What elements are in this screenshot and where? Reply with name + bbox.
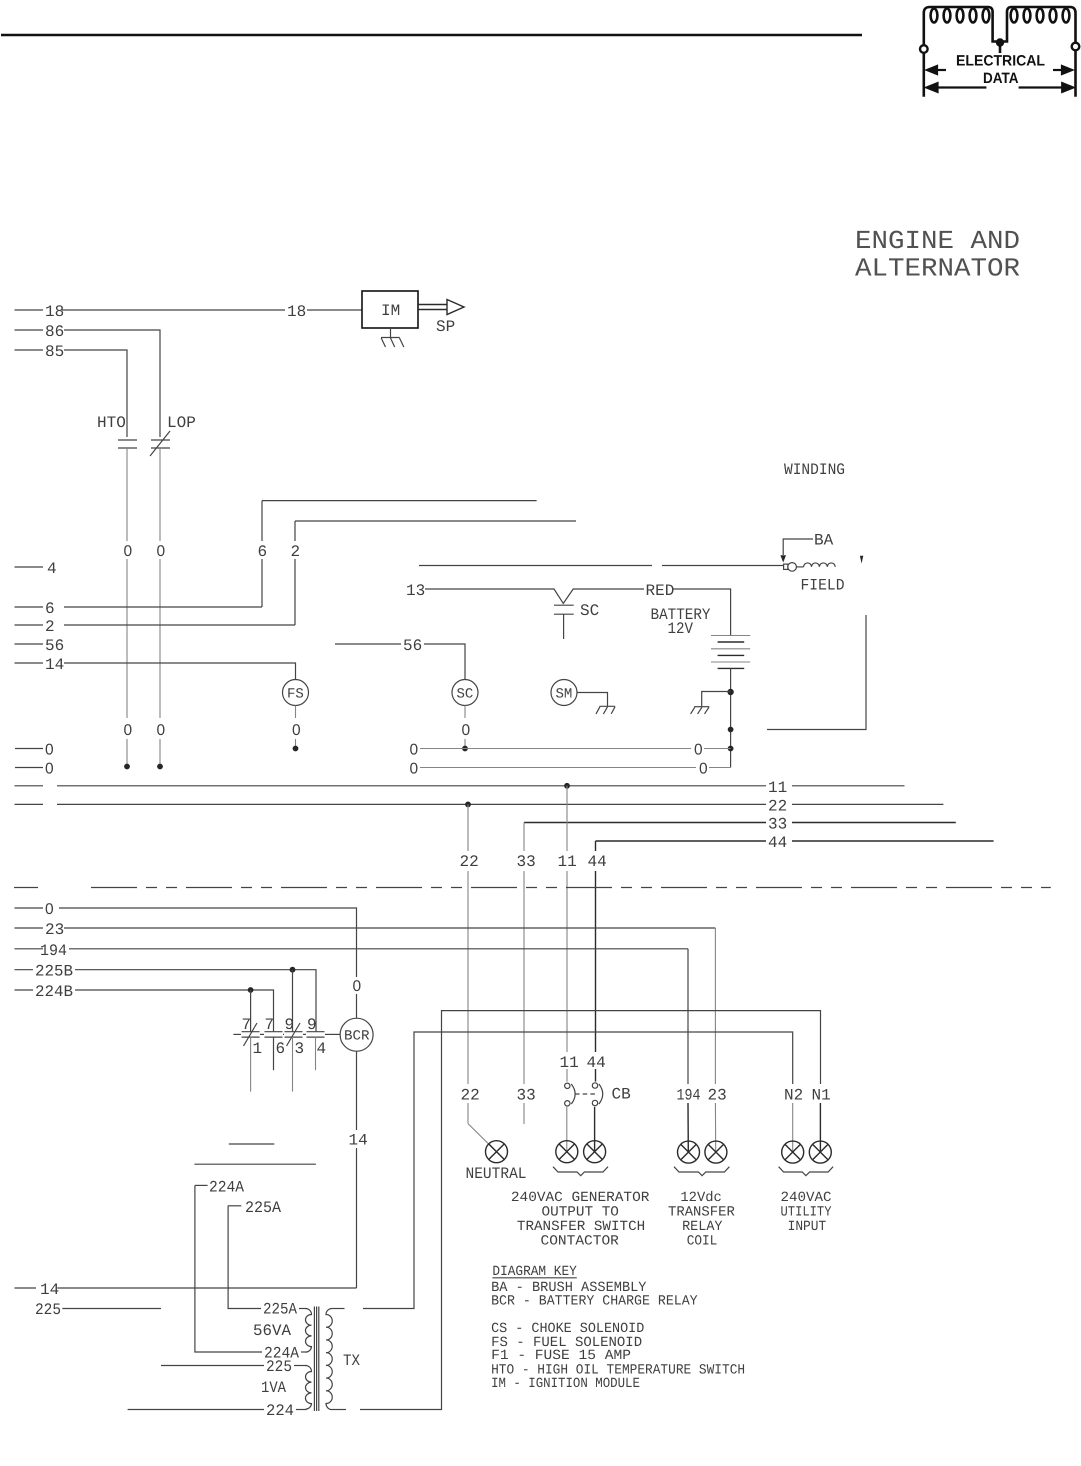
- svg-text:3: 3: [295, 1040, 305, 1058]
- icon arrows: [927, 66, 1074, 92]
- svg-text:1: 1: [253, 1040, 263, 1058]
- field return wire: [767, 615, 866, 730]
- rail 22: [15, 797, 944, 815]
- svg-text:RED: RED: [646, 582, 675, 600]
- svg-text:BA: BA: [814, 532, 834, 550]
- TX secondary upper wire to N2: [332, 1032, 793, 1309]
- icon center tap dot: [996, 38, 1004, 46]
- svg-text:WINDING: WINDING: [784, 461, 845, 479]
- winding tick arrow: [860, 556, 863, 564]
- rail 0 lower: [15, 761, 731, 778]
- svg-text:23: 23: [45, 921, 64, 939]
- FS wire to 0: [292, 706, 301, 752]
- svg-text:INPUT: INPUT: [788, 1219, 827, 1235]
- starter motor SM: [551, 680, 577, 706]
- svg-text:22: 22: [461, 1087, 480, 1105]
- svg-text:225: 225: [266, 1358, 292, 1376]
- lamp 194: [678, 1141, 700, 1163]
- svg-text:0: 0: [124, 722, 133, 739]
- svg-text:56: 56: [403, 637, 422, 655]
- SM ground: [577, 693, 615, 714]
- svg-text:22: 22: [460, 853, 479, 871]
- lamp 23: [705, 1141, 727, 1163]
- svg-text:N2: N2: [784, 1087, 803, 1105]
- svg-text:224B: 224B: [35, 983, 73, 1001]
- wire 44 down: [594, 841, 597, 1152]
- IM output arrow SP: [418, 300, 464, 337]
- svg-text:86: 86: [45, 323, 64, 341]
- svg-text:11: 11: [768, 779, 787, 797]
- svg-text:224A: 224A: [209, 1178, 244, 1196]
- caption utility input: [781, 1190, 833, 1235]
- svg-text:224: 224: [266, 1402, 294, 1420]
- svg-text:ALTERNATOR: ALTERNATOR: [855, 254, 1020, 284]
- svg-text:N1: N1: [812, 1087, 831, 1105]
- wire 225 stub: [35, 1301, 161, 1319]
- svg-text:CONTACTOR: CONTACTOR: [541, 1234, 620, 1250]
- brace utility input: [779, 1167, 834, 1176]
- svg-text:0: 0: [699, 761, 708, 778]
- svg-text:4: 4: [317, 1040, 327, 1058]
- wire 4: [15, 560, 57, 578]
- svg-text:IM - IGNITION MODULE: IM - IGNITION MODULE: [491, 1376, 640, 1392]
- wire 224B: [15, 983, 274, 1032]
- circuit breaker CB: [565, 1083, 631, 1106]
- IM ground: [381, 328, 404, 347]
- wire 13 to choke solenoid: [406, 582, 731, 636]
- wire 6: [15, 501, 537, 618]
- svg-text:ENGINE AND: ENGINE AND: [855, 226, 1020, 256]
- svg-text:0: 0: [353, 978, 362, 995]
- svg-text:COIL: COIL: [687, 1234, 718, 1250]
- svg-text:DATA: DATA: [983, 70, 1019, 87]
- svg-text:33: 33: [517, 853, 536, 871]
- svg-text:14: 14: [40, 1281, 59, 1299]
- battery negative wire: [727, 668, 733, 767]
- svg-text:CB: CB: [612, 1086, 631, 1104]
- wire 194: [15, 942, 689, 1152]
- wire 225 to TX: [161, 1358, 307, 1376]
- svg-text:12V: 12V: [668, 620, 694, 638]
- svg-text:18: 18: [45, 303, 64, 321]
- BCR contact 9-4: [307, 1016, 327, 1070]
- svg-text:33: 33: [768, 816, 787, 834]
- svg-text:194: 194: [40, 942, 67, 960]
- svg-text:33: 33: [517, 1087, 536, 1105]
- wire 11 down: [566, 786, 568, 1152]
- svg-text:LOP: LOP: [167, 414, 196, 432]
- svg-text:225A: 225A: [245, 1199, 281, 1217]
- svg-text:4: 4: [47, 560, 57, 578]
- svg-text:SC: SC: [457, 687, 474, 703]
- svg-text:0: 0: [45, 761, 54, 778]
- svg-text:14: 14: [349, 1132, 368, 1150]
- brush assembly BA pointer: [780, 532, 833, 563]
- svg-text:0: 0: [462, 722, 471, 739]
- lamp N2: [782, 1141, 804, 1163]
- svg-text:UTILITY: UTILITY: [781, 1204, 833, 1220]
- caption transfer relay coil: [668, 1190, 735, 1250]
- svg-text:0: 0: [124, 543, 133, 560]
- starter contactor SC: [452, 680, 478, 706]
- svg-text:IM: IM: [381, 302, 400, 320]
- svg-text:44: 44: [587, 1054, 606, 1072]
- break mark segments: [194, 1144, 316, 1164]
- svg-text:0: 0: [45, 742, 54, 759]
- transformer TX core: [314, 1307, 318, 1412]
- wire 2: [15, 521, 577, 636]
- svg-text:0: 0: [410, 742, 419, 759]
- HTO wire down: [126, 448, 128, 765]
- rail 0 upper: [15, 742, 731, 759]
- svg-text:NEUTRAL: NEUTRAL: [466, 1165, 527, 1183]
- battery ground: [691, 692, 731, 714]
- svg-text:44: 44: [768, 834, 787, 852]
- svg-text:44: 44: [588, 853, 607, 871]
- svg-text:SC: SC: [580, 602, 599, 620]
- brace generator output: [553, 1167, 608, 1176]
- transformer TX primary lower: [305, 1366, 311, 1410]
- svg-text:TX: TX: [343, 1352, 360, 1370]
- electrical data icon: [924, 7, 1076, 97]
- wire 14: [15, 656, 296, 680]
- wire to winding: [419, 565, 784, 567]
- choke solenoid SC symbol: [554, 605, 574, 639]
- switch HTO: [97, 414, 137, 448]
- wire 56: [15, 637, 466, 680]
- battery charge relay BCR: [340, 1018, 373, 1051]
- transformer TX primary upper: [305, 1309, 311, 1353]
- svg-text:2: 2: [291, 543, 301, 561]
- svg-text:BCR: BCR: [344, 1029, 370, 1045]
- svg-text:22: 22: [768, 797, 787, 815]
- svg-text:11: 11: [560, 1054, 579, 1072]
- brush and field coil: [784, 563, 836, 572]
- icon right terminal: [1072, 43, 1080, 51]
- svg-text:56: 56: [45, 637, 64, 655]
- ignition module IM: [362, 291, 418, 328]
- wire 23: [15, 921, 716, 1152]
- svg-text:SP: SP: [436, 318, 455, 336]
- svg-text:FIELD: FIELD: [801, 577, 845, 595]
- wire 225A: [228, 1199, 306, 1319]
- SC wire to 0: [462, 706, 471, 752]
- section divider dashed: [14, 887, 1051, 889]
- contact link dashes: [233, 1033, 340, 1035]
- svg-text:225: 225: [35, 1301, 61, 1319]
- svg-text:225B: 225B: [35, 963, 73, 981]
- svg-text:18: 18: [287, 303, 306, 321]
- svg-text:194: 194: [677, 1087, 701, 1105]
- wire 224 to TX: [128, 1402, 307, 1420]
- caption generator output: [511, 1190, 650, 1250]
- svg-text:2: 2: [45, 618, 55, 636]
- transformer TX secondary upper: [326, 1309, 332, 1410]
- diagram key heading: [492, 1264, 577, 1280]
- svg-text:FS: FS: [287, 687, 304, 703]
- BCR wire 14 down: [349, 1051, 368, 1288]
- svg-text:6: 6: [45, 600, 55, 618]
- wire 14 bottom: [15, 1281, 357, 1299]
- svg-text:SM: SM: [556, 687, 573, 703]
- BCR contact 9-3: [285, 1016, 305, 1092]
- wire 0 to BCR: [15, 901, 362, 1018]
- svg-text:ELECTRICAL: ELECTRICAL: [956, 53, 1045, 70]
- brace relay coil: [674, 1167, 729, 1176]
- svg-text:225A: 225A: [263, 1301, 297, 1319]
- svg-text:RELAY: RELAY: [682, 1219, 723, 1235]
- svg-text:85: 85: [45, 343, 64, 361]
- svg-text:13: 13: [406, 582, 425, 600]
- wire 22 down: [468, 804, 496, 1151]
- svg-text:TRANSFER SWITCH: TRANSFER SWITCH: [517, 1219, 645, 1235]
- rail 33: [524, 816, 956, 834]
- svg-text:14: 14: [45, 656, 64, 674]
- svg-text:0: 0: [410, 761, 419, 778]
- svg-text:6: 6: [276, 1040, 286, 1058]
- wire 33 down: [523, 823, 525, 1125]
- svg-text:23: 23: [708, 1087, 727, 1105]
- svg-text:6: 6: [258, 543, 268, 561]
- icon left terminal: [920, 45, 928, 53]
- lamp neutral: [486, 1141, 508, 1163]
- svg-text:11: 11: [558, 853, 577, 871]
- svg-text:HTO: HTO: [97, 414, 126, 432]
- wire 225B: [15, 963, 317, 1032]
- switch LOP: [150, 414, 196, 456]
- svg-text:0: 0: [157, 722, 166, 739]
- lamp N1: [809, 1141, 831, 1163]
- lamp 11: [556, 1141, 578, 1163]
- TX secondary lower wire to N1: [332, 1011, 821, 1410]
- wire 224A: [195, 1178, 307, 1362]
- svg-text:OUTPUT TO: OUTPUT TO: [542, 1204, 619, 1220]
- BCR contact 7-1: [242, 1016, 263, 1092]
- svg-text:0: 0: [694, 742, 703, 759]
- rail 11: [15, 779, 905, 797]
- battery plates: [711, 636, 750, 669]
- lamp 44: [584, 1141, 606, 1163]
- svg-text:0: 0: [292, 722, 301, 739]
- LOP wire down: [159, 448, 161, 765]
- rail 44: [596, 834, 994, 852]
- BCR contact 7-6: [265, 1016, 286, 1070]
- svg-text:0: 0: [157, 543, 166, 560]
- wire 86: [15, 323, 161, 437]
- wire 85: [15, 343, 128, 437]
- fuel solenoid FS: [283, 680, 309, 706]
- svg-text:1VA: 1VA: [261, 1379, 286, 1397]
- battery 12V: [651, 606, 711, 638]
- svg-text:56VA: 56VA: [253, 1322, 291, 1340]
- svg-text:TRANSFER: TRANSFER: [668, 1204, 735, 1220]
- top rule: [1, 34, 862, 36]
- svg-text:0: 0: [45, 901, 54, 918]
- svg-text:BCR - BATTERY CHARGE RELAY: BCR - BATTERY CHARGE RELAY: [491, 1294, 698, 1310]
- wire 18: [15, 303, 363, 321]
